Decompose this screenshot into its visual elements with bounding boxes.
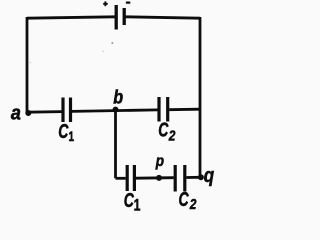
- svg-text:1: 1: [69, 128, 75, 144]
- svg-text:C: C: [58, 119, 69, 142]
- svg-text:b: b: [113, 86, 123, 108]
- svg-text:p: p: [155, 153, 164, 170]
- svg-text:C: C: [179, 187, 190, 210]
- svg-text:a: a: [11, 103, 21, 125]
- svg-text:2: 2: [189, 196, 197, 213]
- svg-text:q: q: [204, 164, 214, 187]
- svg-text:C: C: [158, 118, 169, 141]
- svg-text:1: 1: [134, 197, 141, 213]
- svg-text:2: 2: [168, 127, 176, 144]
- svg-text:C: C: [124, 188, 135, 211]
